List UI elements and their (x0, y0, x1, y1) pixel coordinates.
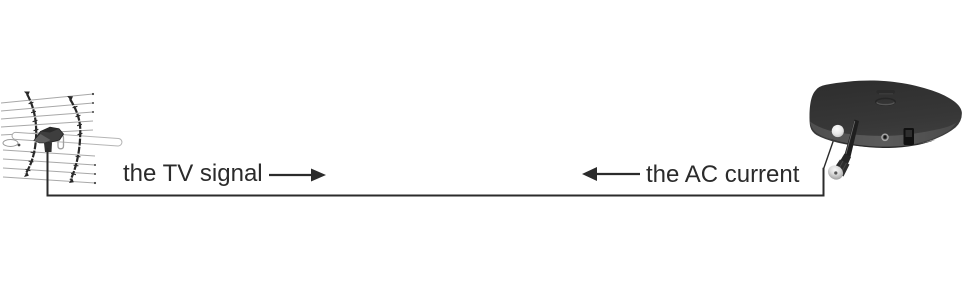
antenna: small loop (folded dipole) (3, 140, 18, 147)
arrow: TV signal (pointing right) (269, 169, 326, 182)
wire: antenna drop, horizontal run, rise to box (48, 148, 824, 196)
svg-text:the AC current: the AC current (646, 161, 800, 188)
antenna: central body (34, 127, 64, 143)
amplifier box: bottom rim shadow (827, 138, 936, 148)
plug: knurled body (833, 160, 850, 177)
antenna: left boom tube (12, 132, 52, 142)
amplifier box: top slit (877, 90, 896, 94)
plug: neck (840, 154, 851, 166)
antenna: body lower connector (44, 143, 52, 153)
antenna: left bow top tip (24, 92, 30, 97)
antenna: body top ridge (41, 127, 60, 132)
antenna: right bow bottom tip (69, 178, 74, 184)
antenna: long right boom tube (45, 133, 122, 146)
antenna: body lighter facet (34, 134, 51, 143)
antenna: right bow top tip (67, 96, 73, 101)
wire: lead to F-connector (824, 135, 836, 169)
power cable on box (845, 120, 860, 158)
antenna: hook tube at body right (58, 133, 64, 149)
amplifier box: front face (810, 122, 957, 148)
port on box (904, 128, 915, 145)
antenna: left bow clips (26, 102, 39, 170)
DC jack on box (882, 134, 888, 140)
power cable edge highlight (846, 121, 855, 154)
svg-text:the TV signal: the TV signal (123, 160, 263, 187)
amplifier box: top ring (876, 98, 895, 105)
antenna: right bow clips (71, 106, 82, 174)
antenna: right bow element (70, 99, 80, 180)
antenna: left bow bottom tip (24, 172, 29, 178)
antenna: upper cross rods (1, 94, 93, 135)
antenna: lower cross rods (3, 150, 95, 183)
plug: knurl streaks (837, 161, 847, 174)
arrow: AC current (pointing left) (582, 167, 640, 181)
antenna: left bow element (26, 94, 37, 174)
antenna: rod end tips (4, 93, 97, 184)
